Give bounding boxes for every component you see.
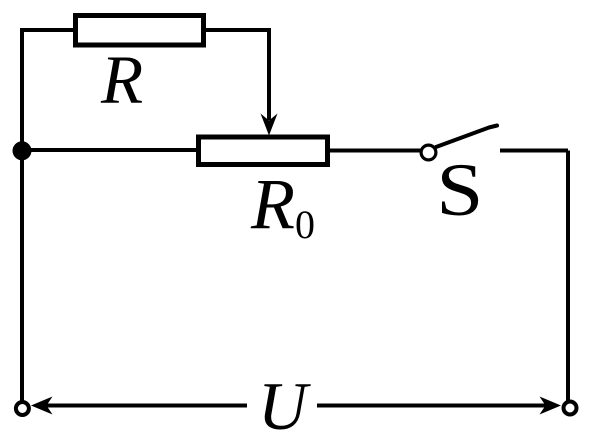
svg-text:U: U (258, 368, 311, 434)
wire top-left horizontal (corner to resistor R) (20, 28, 75, 32)
wire left vertical lower (node to left terminal) (20, 150, 24, 401)
wire node to rheostat R0 (22, 148, 198, 152)
svg-text:S: S (436, 149, 483, 231)
resistor R (76, 16, 204, 46)
U dimension line left segment (44, 404, 247, 408)
rheostat R0 (199, 137, 328, 165)
wiper arrowhead into R0 (261, 114, 278, 136)
right terminal circle (564, 402, 577, 415)
switch S lever (436, 126, 497, 148)
wire R0 to switch (330, 149, 421, 153)
junction node (13, 141, 32, 160)
left terminal circle (16, 402, 29, 415)
wire left vertical upper (node to top-left corner) (20, 30, 24, 152)
wire top-right vertical down to wiper arrow (267, 28, 271, 120)
U dimension left arrowhead (31, 397, 53, 415)
U dimension line right segment (317, 404, 548, 408)
wire switch to top-right corner (500, 149, 568, 153)
svg-text:R: R (250, 164, 295, 244)
switch S pivot circle (421, 145, 436, 160)
svg-text:0: 0 (295, 202, 315, 247)
wire resistor R to top-right corner (206, 28, 271, 32)
U dimension right arrowhead (540, 397, 562, 415)
wire right vertical down (566, 151, 570, 402)
svg-text:R: R (100, 42, 143, 118)
